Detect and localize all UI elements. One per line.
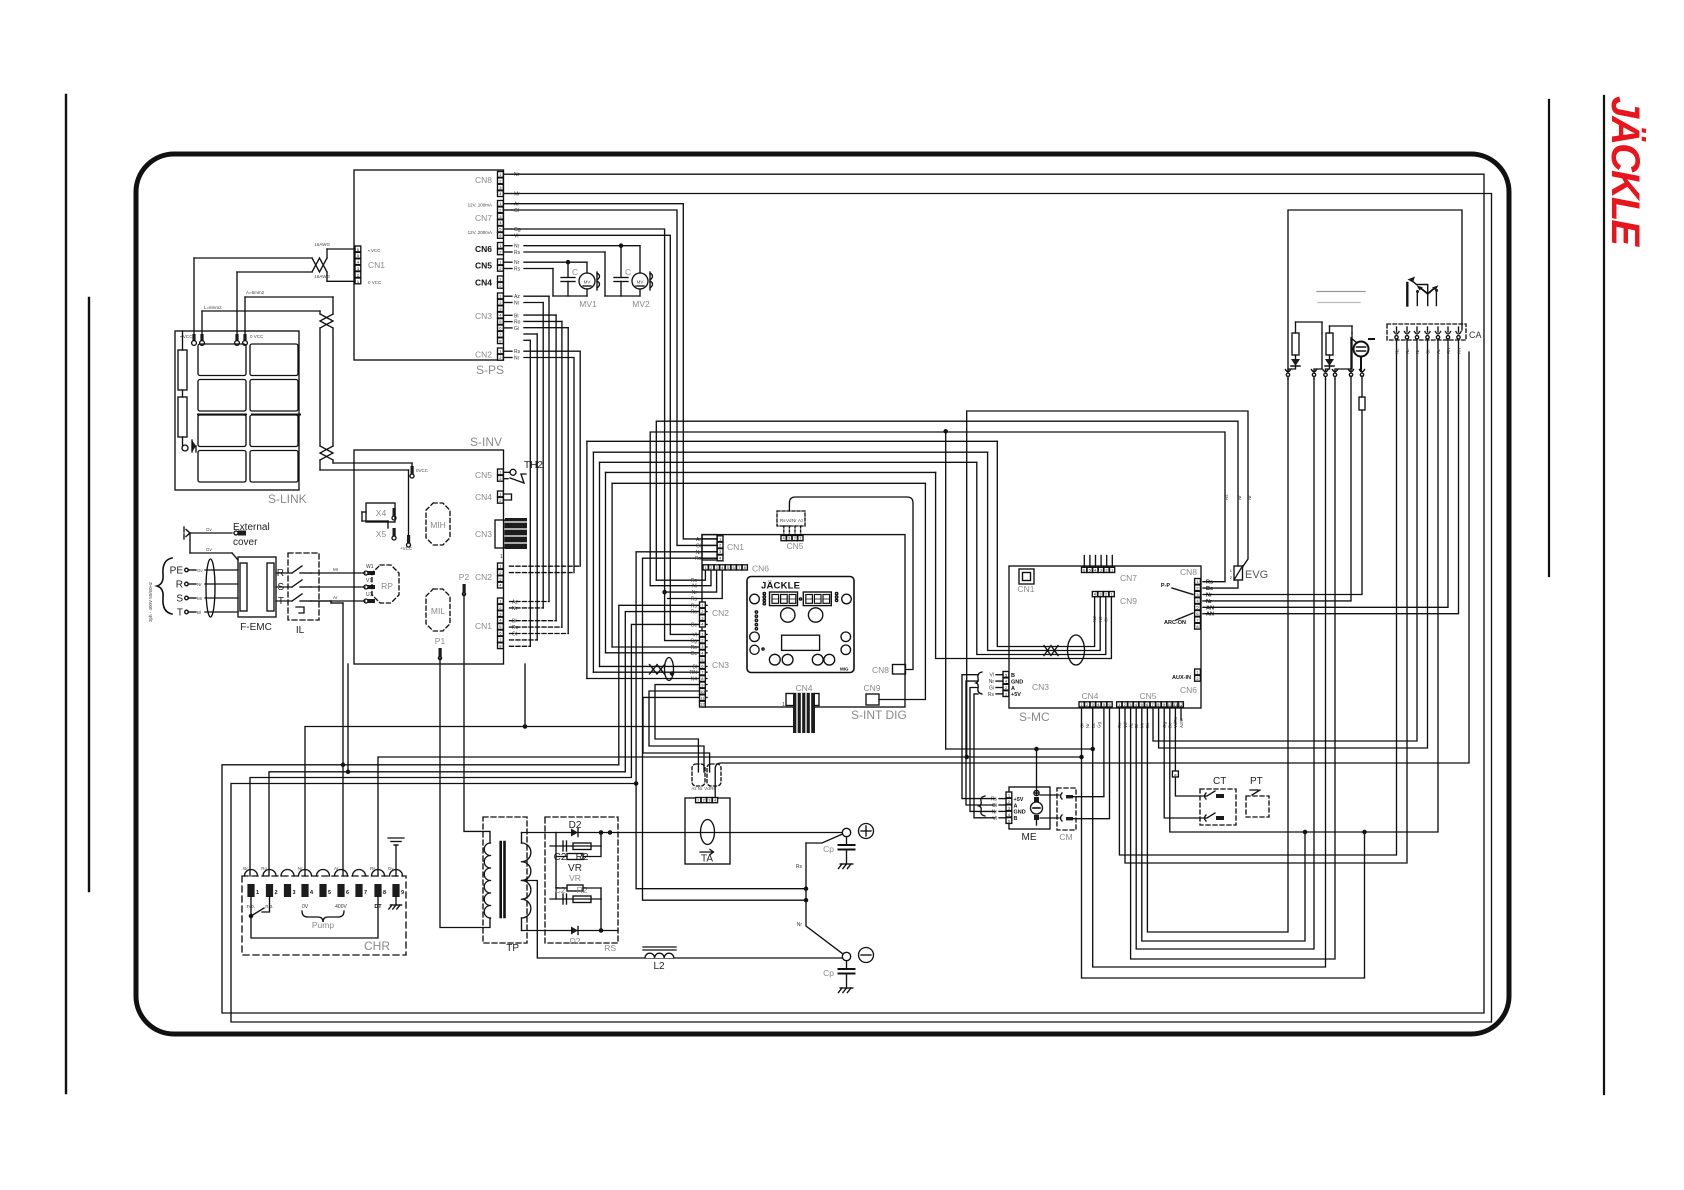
svg-text:P-P: P-P [1161, 583, 1171, 589]
svg-text:CN2: CN2 [475, 350, 492, 360]
svg-text:CN1: CN1 [368, 260, 385, 270]
panel LEDs [763, 592, 765, 594]
svg-text:Ni: Ni [692, 584, 697, 590]
connector CN4 (S-PS) [498, 276, 504, 282]
wire ME- to CM [1040, 817, 1059, 819]
svg-text:B: B [1014, 816, 1018, 822]
svg-text:12: 12 [1179, 702, 1184, 707]
wire CN5.4 to valve1 loop [1136, 379, 1314, 949]
panel corner circles [750, 594, 760, 604]
svg-text:X5: X5 [376, 529, 387, 539]
wire CN5.3 to valve2 loop [1131, 379, 1335, 959]
fuse on fan wire [1359, 397, 1365, 410]
svg-text:N4: N4 [691, 677, 698, 683]
wire CN5.6 to valve1 loop [1147, 379, 1288, 932]
wire CN7.Vl to S-INT CN3.1 [512, 235, 707, 634]
svg-text:Bl: Bl [197, 610, 201, 615]
connector CN1 (S-PS) [355, 246, 361, 252]
svg-text:Nr: Nr [1415, 349, 1420, 354]
IL switch block [288, 553, 319, 620]
svg-text:Vl: Vl [993, 816, 997, 822]
svg-text:CN7: CN7 [475, 213, 492, 223]
+VCC terminal [407, 535, 410, 543]
svg-text:Gl: Gl [512, 631, 517, 637]
wire CN5.12 stub [1180, 708, 1182, 720]
svg-text:9: 9 [401, 890, 404, 896]
svg-text:JÄCKLE: JÄCKLE [1603, 96, 1647, 247]
page right rule 1 [1548, 100, 1550, 576]
CHR terminal strip [242, 876, 406, 955]
wire CN7.Gl to S-INT CN1.2 [512, 210, 717, 545]
wire valve1 to CA top line [1288, 210, 1462, 371]
svg-text:Rs: Rs [1224, 494, 1229, 500]
wire loop CN8.Nr big loop [222, 174, 1484, 1013]
svg-text:Nr: Nr [1237, 495, 1242, 500]
svg-text:+5V: +5V [1011, 692, 1021, 698]
svg-text:CN6: CN6 [1180, 685, 1197, 695]
svg-text:Gv: Gv [206, 547, 213, 552]
fan wires [1360, 357, 1362, 372]
connector CN9 (S-MC) [1092, 592, 1097, 597]
svg-text:CN1: CN1 [1017, 584, 1034, 594]
svg-text:Rs: Rs [691, 597, 698, 603]
S-INV board [354, 450, 504, 664]
svg-text:External: External [233, 522, 270, 533]
CT torch trigger connector [1200, 789, 1236, 825]
svg-text:CN4: CN4 [1081, 691, 1098, 701]
panel buttons [769, 654, 780, 665]
svg-text:▪ VCC: ▪ VCC [368, 248, 381, 253]
svg-text:Nr: Nr [797, 922, 803, 928]
terminal 0VCC [411, 466, 414, 474]
svg-text:S-LINK: S-LINK [268, 492, 307, 506]
svg-text:CN3: CN3 [475, 311, 492, 321]
S-INT DIG board [702, 535, 905, 707]
page left rule 1 [65, 95, 67, 1093]
svg-text:Ro: Ro [261, 866, 267, 871]
svg-text:Mr: Mr [514, 192, 520, 198]
connector CN8 (S-MC) [1195, 579, 1201, 585]
wire bundle S-INT CN3 to S-MC CN9 [612, 646, 707, 648]
svg-text:A: A [1014, 803, 1018, 809]
svg-text:Bc: Bc [1206, 586, 1213, 592]
wire CN5.5 loop [1142, 708, 1305, 941]
TP transformer [483, 817, 527, 943]
svg-text:Az: Az [514, 294, 520, 300]
svg-text:Rs: Rs [370, 866, 376, 871]
svg-text:RN: RN [690, 670, 698, 676]
connector CN5 (S-PS) [498, 259, 504, 265]
wire CN5.2 to CA.2 [1125, 352, 1407, 863]
svg-text:Mr: Mr [333, 567, 339, 572]
diode D2 bottom [571, 927, 578, 935]
snubber C2 R2 top [555, 833, 557, 847]
wire S-INT CN6.2 to S-MC CN8.1 Rs [650, 571, 711, 586]
CHR ground 9 [395, 897, 397, 905]
svg-text:PT: PT [1250, 776, 1263, 787]
svg-text:▪ VCC: ▪ VCC [180, 334, 193, 339]
svg-text:Rs: Rs [514, 250, 521, 256]
svg-text:MV2: MV2 [632, 299, 650, 309]
snubber C2 R2 bottom [555, 888, 557, 899]
svg-text:Nr: Nr [298, 866, 303, 871]
svg-text:Nr: Nr [696, 550, 702, 556]
wire S-INT CN2.2 Ro to CHR.2 [269, 612, 707, 876]
X4 box [366, 503, 395, 522]
wire CN4.2 to valve2 [1093, 379, 1326, 967]
svg-text:A: A [1011, 686, 1015, 692]
wire bundle S-PS CN3 to S-INV CN1 [524, 295, 549, 297]
svg-text:Rs: Rs [988, 692, 995, 698]
svg-text:4: 4 [310, 890, 314, 896]
connector CN6 (S-PS) [498, 243, 504, 249]
svg-text:Vl: Vl [514, 233, 518, 239]
connector CN6 AUX-IN (S-MC) [1195, 669, 1201, 675]
fan blades MV2 [650, 273, 653, 288]
svg-text:Rs: Rs [695, 556, 702, 562]
svg-text:ARC-ON: ARC-ON [1164, 620, 1186, 626]
connector CN3 (S-MC) [1003, 672, 1009, 678]
S-LINK LED [182, 445, 188, 451]
svg-text:1: 1 [256, 890, 259, 896]
svg-text:TA: TA [701, 854, 713, 865]
svg-text:CN8: CN8 [475, 175, 492, 185]
wire CN8.AN2 to CA.7 [1203, 352, 1459, 614]
wire TP tap to L2 to minus [522, 881, 843, 959]
connector CN8 (S-INT) [893, 665, 906, 675]
svg-text:Gi: Gi [989, 686, 994, 692]
svg-text:Az: Az [691, 786, 697, 791]
wire S-INT CN6.3 tap on Gg [665, 571, 717, 593]
svg-text:AN: AN [1206, 612, 1214, 618]
svg-text:CN9: CN9 [863, 683, 880, 693]
svg-text:Nr: Nr [514, 356, 520, 362]
svg-text:CN5: CN5 [475, 470, 492, 480]
svg-text:IL: IL [296, 625, 305, 636]
svg-text:Vl: Vl [693, 632, 697, 638]
svg-text:+VCC: +VCC [400, 546, 413, 551]
wire to S-MC CN9.1 [997, 441, 1094, 646]
svg-text:AN: AN [1446, 348, 1451, 354]
svg-text:CN3: CN3 [475, 529, 492, 539]
Cp capacitor - [846, 961, 848, 969]
svg-text:CN4: CN4 [795, 683, 812, 693]
svg-text:CN6: CN6 [752, 564, 769, 574]
wire CN5.10 to CA.5 line [1170, 352, 1438, 832]
svg-text:+5V: +5V [1014, 797, 1024, 803]
svg-text:Gi: Gi [514, 326, 519, 332]
svg-text:AN: AN [1457, 348, 1462, 354]
connector CN3 (S-PS) [498, 293, 504, 299]
wire CN5.1 to MV1 [524, 261, 587, 263]
svg-text:6: 6 [346, 890, 349, 896]
svg-text:CT: CT [1213, 776, 1226, 787]
inductor L2 [645, 953, 674, 958]
svg-text:Nr: Nr [514, 172, 520, 178]
connector CN4 (S-INV) [498, 491, 504, 497]
svg-text:X4: X4 [376, 508, 387, 518]
wire CN5.11 to CT upper [1174, 708, 1176, 771]
svg-text:L=6mm2: L=6mm2 [204, 305, 222, 310]
svg-text:TH2: TH2 [524, 460, 543, 471]
7-seg display right [803, 592, 831, 606]
knobs [781, 608, 795, 622]
wire CN5.1 to CA.1 [1119, 352, 1396, 855]
connector CN7 (S-MC) [1082, 567, 1087, 572]
svg-text:Gi: Gi [992, 803, 997, 809]
wire CN8.Nr to fan motor [1203, 410, 1362, 595]
svg-text:S-PS: S-PS [476, 363, 504, 377]
svg-text:1: 1 [782, 702, 785, 708]
wire bundle S-PS CN2 to S-INV CN2 [524, 351, 580, 566]
output terminal + [842, 828, 850, 836]
svg-text:12V..200mA: 12V..200mA [468, 230, 492, 235]
svg-text:Gl: Gl [696, 543, 701, 549]
CHR switch n.o. [250, 897, 252, 916]
connector CN6 (S-INT) [703, 565, 708, 570]
svg-text:Gg: Gg [1096, 721, 1101, 728]
svg-text:Nr: Nr [992, 809, 998, 815]
wire S-INT CN2.4 Bc to CHR.1 [250, 624, 707, 876]
svg-text:Nr: Nr [692, 590, 698, 596]
svg-text:Nr: Nr [1206, 599, 1213, 605]
connector CN2 (S-INT) [700, 602, 706, 608]
S-LINK left resistors [178, 350, 187, 390]
connector CN8 (S-PS) [498, 172, 504, 178]
wire CHR.8 Rs DT to S-MC CN4.1 [378, 757, 1082, 876]
S-INV input terminals W1 V1 U1 [364, 571, 368, 575]
svg-text:JÄCKLE: JÄCKLE [761, 581, 800, 592]
RP dashed octagon [372, 565, 399, 603]
svg-text:Pump: Pump [312, 920, 334, 930]
svg-text:Az: Az [512, 600, 518, 606]
svg-text:Az: Az [798, 518, 804, 523]
CHR internal wire 1 to 8 [251, 897, 378, 938]
svg-text:Nr: Nr [1247, 495, 1252, 500]
svg-text:CN3: CN3 [712, 660, 729, 670]
svg-text:EVG: EVG [1245, 569, 1268, 581]
svg-text:A=6mm2: A=6mm2 [246, 290, 265, 295]
wire + to Rs/Nr sense [806, 834, 843, 843]
svg-text:5: 5 [328, 890, 331, 896]
S-LINK board [175, 331, 299, 490]
svg-text:CN8: CN8 [872, 665, 889, 675]
svg-text:Nr: Nr [514, 260, 520, 266]
svg-text:Cp: Cp [823, 844, 834, 854]
svg-text:0VCC: 0VCC [416, 468, 429, 473]
svg-text:Nr: Nr [512, 606, 518, 612]
wire S-MC CN3 cable to ME [962, 675, 995, 799]
wire EVG Nr 2 [967, 411, 1248, 757]
svg-text:Mr: Mr [197, 596, 203, 601]
svg-text:Rs: Rs [514, 349, 521, 355]
svg-text:CN8: CN8 [1180, 567, 1197, 577]
svg-text:CHR: CHR [364, 939, 390, 953]
wire ME+ to CM [1040, 794, 1059, 796]
svg-text:1: 1 [500, 554, 503, 560]
svg-text:400V: 400V [335, 904, 347, 910]
svg-text:Bl: Bl [514, 313, 518, 319]
svg-text:Gl: Gl [514, 208, 519, 214]
svg-text:S-INT DIG: S-INT DIG [851, 708, 907, 722]
svg-text:16AWG: 16AWG [314, 274, 330, 279]
svg-text:1: 1 [1230, 568, 1233, 573]
svg-text:8: 8 [383, 890, 386, 896]
svg-text:Nz: Nz [1395, 348, 1400, 354]
svg-text:Az: Az [1436, 348, 1441, 354]
connector CN1 (S-INT) [702, 535, 717, 560]
wire CN7.Gg to S-INT CN3.2 [512, 229, 707, 641]
fan blades MV1 [597, 273, 600, 288]
wire TP sec to RS rail [521, 833, 523, 844]
svg-text:Ro: Ro [512, 625, 519, 631]
svg-text:S: S [176, 594, 183, 605]
Cp capacitor + [846, 837, 848, 845]
S-LINK terminals [192, 334, 195, 341]
svg-text:Ar: Ar [333, 595, 338, 600]
wire to S-MC CN9.3 [977, 462, 1106, 654]
wire CN8.Nr2 to fan motor [1203, 376, 1351, 601]
schematic outer frame [136, 154, 1509, 1034]
svg-text:Gv: Gv [197, 568, 204, 573]
wire ME+ supply [1037, 749, 1093, 790]
wire S-INT CN1.3 Nr to output sense [636, 552, 806, 889]
svg-text:Rs: Rs [514, 267, 521, 273]
fan motor right [1354, 342, 1369, 357]
svg-text:CN5: CN5 [475, 261, 492, 271]
svg-text:C: C [572, 267, 578, 277]
svg-text:P1: P1 [435, 636, 446, 646]
svg-text:AN: AN [1206, 605, 1214, 611]
svg-text:CN2: CN2 [475, 572, 492, 582]
svg-text:10: 10 [700, 689, 705, 694]
twisted pair + ferrite on CN3 wires [650, 665, 665, 675]
svg-text:16AWG: 16AWG [314, 242, 330, 247]
RS rectifier block [545, 817, 618, 943]
wire CN7.Ar to S-INT CN1.1 [512, 204, 717, 539]
wire S-INT CN6.4 stub [668, 571, 723, 599]
wire TA cable to S-INT CN3 [655, 685, 707, 772]
mains plug fork [186, 530, 190, 534]
svg-text:Nr: Nr [514, 244, 520, 250]
svg-text:Nr: Nr [698, 786, 703, 791]
S-MC board [1009, 566, 1201, 708]
svg-text:3ph - 400V 50/60Hz: 3ph - 400V 50/60Hz [148, 581, 153, 622]
svg-text:RS: RS [604, 943, 616, 953]
svg-text:N2: N2 [1098, 616, 1103, 622]
svg-text:12: 12 [700, 702, 705, 707]
panel LCD window [782, 635, 820, 650]
PT connector [1246, 796, 1269, 817]
svg-text:CM: CM [1059, 832, 1072, 842]
connector CN9 (S-INT) [866, 694, 879, 705]
svg-text:W1: W1 [366, 564, 374, 570]
wire loop CN8.Mr big loop [231, 194, 1492, 1023]
svg-text:CN3: CN3 [1032, 682, 1049, 692]
svg-text:Bc: Bc [691, 622, 697, 628]
svg-text:Bl: Bl [512, 619, 516, 625]
svg-text:0 VCC: 0 VCC [368, 280, 382, 285]
wire CN5.8 to CA.4 [1159, 352, 1428, 748]
svg-text:Rs: Rs [1206, 580, 1213, 586]
wire Gv to external cover [190, 532, 232, 534]
svg-text:RP: RP [381, 581, 393, 591]
svg-text:Rs: Rs [991, 797, 998, 803]
svg-text:CN1: CN1 [727, 542, 744, 552]
svg-text:CN5: CN5 [786, 541, 803, 551]
svg-text:Nr: Nr [989, 679, 995, 685]
torch symbol [1406, 283, 1408, 306]
wire CN5.9 to CT lower [1164, 708, 1206, 818]
svg-text:0 VCC: 0 VCC [250, 334, 264, 339]
VR top [567, 854, 583, 860]
svg-text:CN4: CN4 [475, 492, 492, 502]
svg-text:CN2: CN2 [712, 608, 729, 618]
svg-text:Ro: Ro [691, 610, 698, 616]
svg-text:Rs: Rs [691, 603, 698, 609]
svg-text:MV1: MV1 [579, 299, 597, 309]
svg-text:CA: CA [1469, 330, 1482, 340]
wire to S-INT CN9 [879, 483, 925, 699]
connector CN3 (S-INV) ribbon [495, 520, 505, 548]
svg-text:2: 2 [1230, 575, 1233, 580]
S-PS board [354, 170, 504, 360]
svg-text:0V: 0V [302, 904, 309, 910]
svg-text:S-MC: S-MC [1019, 710, 1050, 724]
svg-text:Vl: Vl [990, 673, 994, 679]
svg-text:Bc: Bc [691, 651, 697, 657]
svg-text:Nr: Nr [792, 518, 797, 523]
svg-text:MIG: MIG [840, 667, 849, 672]
svg-text:Nr: Nr [1206, 593, 1213, 599]
svg-text:7: 7 [364, 890, 367, 896]
svg-text:Gg: Gg [690, 639, 697, 645]
wire CM to S-MC CN4.4 [1073, 708, 1110, 819]
EVG gas valve [1234, 566, 1243, 580]
svg-text:GND: GND [1011, 679, 1023, 685]
TA current sensor [685, 798, 730, 864]
valve terminals [1285, 370, 1290, 372]
svg-text:CN9: CN9 [1120, 596, 1137, 606]
svg-text:F-EMC: F-EMC [240, 622, 272, 633]
svg-text:AUX-IN: AUX-IN [1172, 675, 1191, 681]
connector CN7 (S-PS) [498, 201, 504, 207]
svg-text:PE: PE [170, 566, 184, 577]
gas valve 1 [1292, 333, 1299, 355]
svg-text:Gg: Gg [514, 227, 521, 233]
front panel [747, 577, 854, 673]
F-EMC filter [238, 557, 276, 617]
CM connector [1057, 788, 1076, 830]
wire - slant [806, 900, 843, 954]
svg-text:MV: MV [637, 280, 644, 285]
wire CN4.1 loop [1082, 708, 1365, 978]
svg-text:MIH: MIH [430, 520, 446, 530]
ME motor symbol [1034, 790, 1039, 795]
svg-text:Ar: Ar [696, 537, 701, 543]
svg-text:CN5: CN5 [1139, 691, 1156, 701]
svg-text:R2: R2 [577, 885, 588, 895]
page left rule 2 [88, 298, 90, 891]
svg-text:Nr: Nr [197, 582, 202, 587]
connector CN3 (S-INT) [700, 631, 706, 637]
torch cable gray lines [1317, 291, 1365, 293]
svg-text:Bc: Bc [243, 866, 249, 871]
svg-text:MV: MV [584, 280, 591, 285]
wire CM to S-MC CN4.3 [1073, 708, 1104, 797]
wire CN6.1 to MV2 [524, 245, 640, 247]
svg-text:CN1: CN1 [475, 621, 492, 631]
